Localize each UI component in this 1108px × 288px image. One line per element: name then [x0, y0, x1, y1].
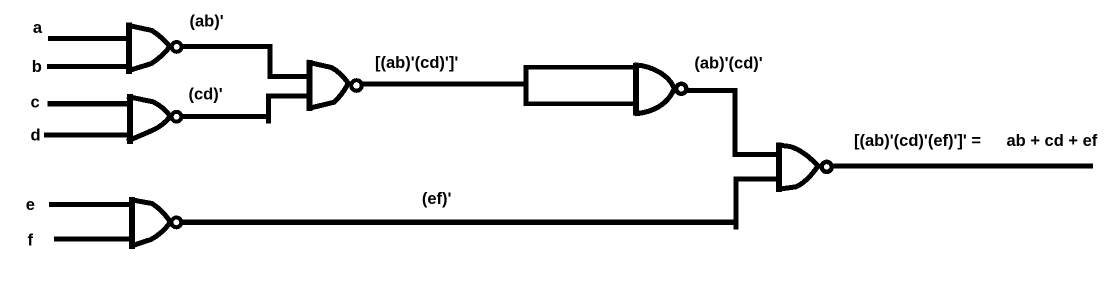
svg-text:(ab)'(cd)': (ab)'(cd)'	[694, 55, 762, 73]
wire (ab)' from U1 to U3	[182, 47, 309, 77]
net label (ab)'(cd)'	[694, 55, 762, 73]
output wire of U6	[834, 164, 1094, 169]
svg-text:[(ab)'(cd)'(ef)']' =: [(ab)'(cd)'(ef)']' =	[854, 132, 981, 150]
net label (ab)'	[190, 13, 224, 31]
net label [(ab)'(cd)']'	[375, 54, 458, 72]
NAND gate U1 (inputs a,b)	[127, 23, 182, 75]
net label (ef)'	[422, 190, 452, 208]
wire (ef)' from U5 to U6	[182, 179, 778, 230]
svg-text:f: f	[28, 232, 34, 250]
NAND gate U5 (inputs e,f)	[130, 197, 182, 249]
svg-text:e: e	[26, 196, 35, 214]
net label (cd)'	[189, 86, 223, 104]
wire from U3 to inverter U4	[362, 82, 528, 87]
result label ab + cd + ef	[1007, 132, 1098, 150]
input wire c	[48, 101, 131, 106]
input label d	[31, 126, 41, 144]
wire (cd)' from U2 to U3	[182, 96, 309, 124]
svg-text:ab + cd + ef: ab + cd + ef	[1007, 132, 1098, 150]
svg-text:[(ab)'(cd)']': [(ab)'(cd)']'	[375, 54, 458, 72]
NAND gate U3 (second level)	[307, 60, 362, 111]
svg-text:(cd)': (cd)'	[189, 86, 223, 104]
output label [(ab)'(cd)'(ef)']' =	[854, 132, 981, 150]
svg-text:b: b	[32, 58, 42, 76]
wire (ab)'(cd)' from U4 to U6	[687, 91, 778, 155]
inverter U4 (rectangle body with output bubble)	[526, 63, 686, 116]
input label b	[32, 58, 42, 76]
input label f	[28, 232, 34, 250]
input wire d	[44, 132, 130, 137]
input label c	[31, 94, 40, 112]
svg-text:(ef)': (ef)'	[422, 190, 452, 208]
svg-text:(ab)': (ab)'	[190, 13, 224, 31]
input wire e	[49, 202, 132, 207]
svg-text:c: c	[31, 94, 40, 112]
input label e	[26, 196, 35, 214]
input label a	[33, 19, 43, 37]
input wire b	[47, 64, 129, 69]
input wire f	[54, 237, 132, 242]
svg-text:d: d	[31, 126, 41, 144]
input wire a	[48, 36, 129, 41]
svg-text:a: a	[33, 19, 43, 37]
NAND gate U2 (inputs c,d)	[127, 94, 181, 144]
NAND gate U6 (final, inputs (ab)'(cd)' and (ef)')	[777, 142, 832, 192]
